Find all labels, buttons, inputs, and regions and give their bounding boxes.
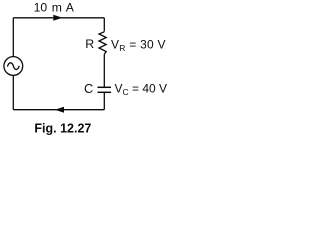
wire bottom (right corner to left corner)	[13, 109, 104, 111]
wire right upper (top corner down to resistor)	[103, 18, 105, 32]
svg-text:VR = 30 V: VR = 30 V	[111, 37, 166, 53]
svg-text:R: R	[85, 37, 94, 51]
AC source (sine-wave generator)	[4, 57, 23, 76]
wire left upper (top corner down to source)	[12, 18, 14, 57]
current direction arrowhead on top wire	[53, 15, 62, 21]
wire top (from left corner to right corner)	[13, 17, 104, 19]
svg-text:C: C	[84, 81, 93, 96]
wire right middle (resistor to capacitor)	[103, 54, 105, 87]
svg-text:10mA: 10mA	[34, 1, 75, 15]
svg-text:VC = 40 V: VC = 40 V	[115, 81, 168, 97]
return current arrowhead on bottom wire	[55, 107, 64, 113]
capacitor C (two plates)	[98, 87, 112, 92]
resistor R (zigzag)	[99, 32, 106, 55]
wire left lower (source down to bottom corner)	[12, 75, 14, 109]
svg-text:Fig. 12.27: Fig. 12.27	[34, 121, 91, 135]
wire right lower (capacitor to bottom corner)	[103, 92, 105, 109]
